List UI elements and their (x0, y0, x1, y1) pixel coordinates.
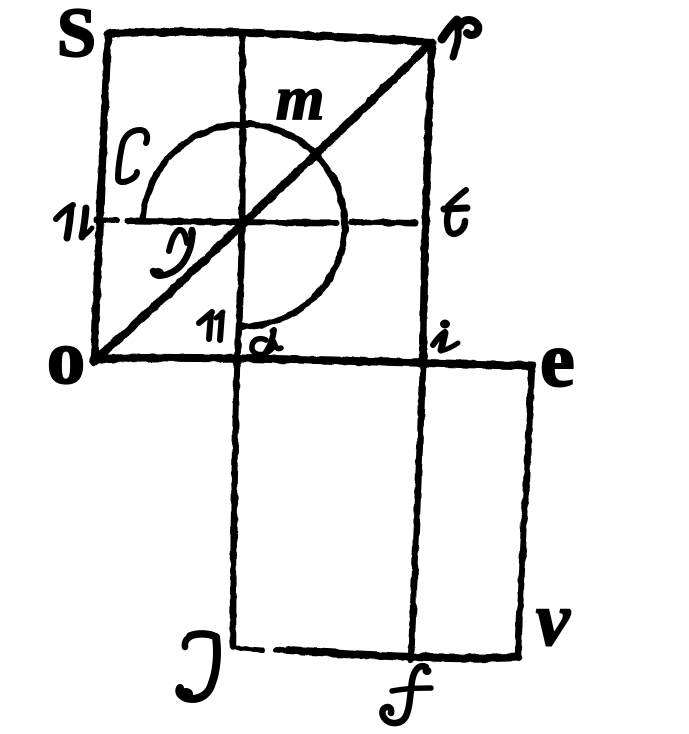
label u (56, 205, 92, 238)
label y (153, 230, 192, 276)
wire horizontal dashed u-t (96, 217, 117, 223)
wire left edge S-o (94, 35, 108, 362)
wire right edge e-v (518, 366, 532, 656)
svg-text:m: m (276, 65, 324, 133)
label i (433, 332, 458, 351)
wire vertical i-f (411, 367, 423, 660)
svg-text:o: o (47, 316, 85, 400)
circle arc (143, 124, 345, 326)
svg-text:e: e (540, 316, 575, 403)
wire vertical midline m-J (233, 36, 243, 647)
wire top edge S-r (108, 32, 432, 42)
label f (382, 666, 431, 723)
label J (179, 634, 217, 699)
wire bottom dashed J-f-v (235, 648, 263, 650)
wire bottom edge o-i-e (94, 358, 532, 366)
label t (444, 190, 467, 234)
wire diagonal o-r (94, 46, 428, 361)
label d (252, 330, 281, 355)
svg-text:S: S (57, 0, 96, 72)
wire right edge r-i (423, 43, 432, 367)
label 11 (199, 312, 223, 340)
svg-text:v: v (536, 578, 571, 662)
label L (118, 130, 147, 182)
label r (442, 20, 478, 57)
